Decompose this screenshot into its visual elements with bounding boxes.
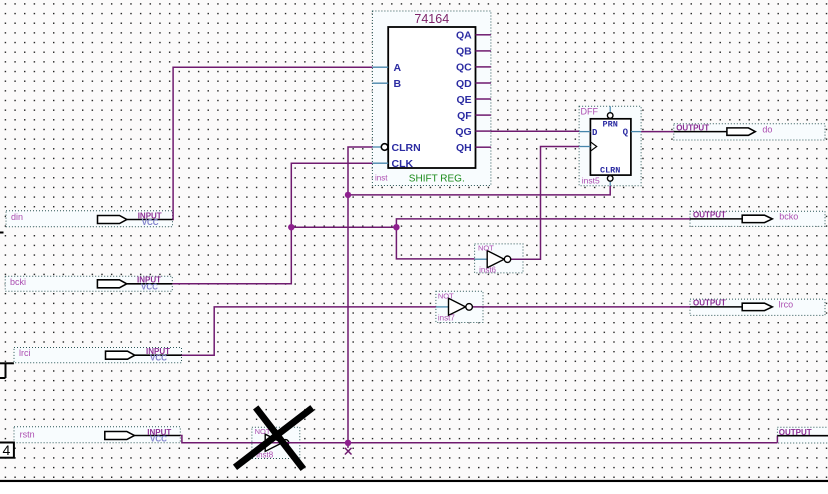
svg-text:NOT: NOT [478,244,494,253]
svg-text:OUTPUT: OUTPUT [693,211,726,220]
svg-text:QA: QA [456,30,472,42]
svg-text:OUTPUT: OUTPUT [693,299,726,308]
svg-text:QC: QC [456,62,472,74]
svg-text:QH: QH [456,142,472,154]
svg-text:QF: QF [457,110,472,122]
svg-text:QD: QD [456,78,472,90]
svg-text:lrci: lrci [19,348,31,358]
svg-text:SHIFT REG.: SHIFT REG. [409,173,465,184]
svg-text:lrco: lrco [779,300,794,310]
svg-text:do: do [762,124,772,134]
svg-text:OUTPUT: OUTPUT [779,428,812,437]
svg-text:rstn: rstn [20,430,35,440]
svg-text:A: A [394,62,402,74]
svg-text:bcko: bcko [779,212,798,222]
svg-text:B: B [394,78,402,90]
svg-text:din: din [11,212,23,222]
svg-text:QE: QE [457,94,472,106]
svg-text:PRN: PRN [603,119,618,129]
svg-text:inst6: inst6 [479,265,496,274]
svg-text:QB: QB [456,46,472,58]
svg-text:VCC: VCC [150,435,167,444]
svg-text:NOT: NOT [438,292,454,301]
svg-text:4: 4 [3,442,11,458]
svg-text:inst5: inst5 [582,175,600,185]
svg-text:74164: 74164 [414,12,449,26]
svg-text:QG: QG [455,126,471,138]
svg-text:VCC: VCC [150,354,167,363]
svg-text:D: D [592,128,598,138]
svg-text:DFF: DFF [581,107,599,117]
svg-text:Q: Q [623,128,629,138]
svg-text:CLRN: CLRN [392,142,421,154]
svg-text:bcki: bcki [10,277,26,287]
svg-text:CLRN: CLRN [600,165,620,175]
svg-text:VCC: VCC [141,282,158,291]
svg-text:inst7: inst7 [438,314,455,323]
svg-text:inst: inst [375,174,388,183]
svg-text:OUTPUT: OUTPUT [676,123,709,132]
svg-text:VCC: VCC [142,218,159,227]
svg-text:CLK: CLK [392,158,414,170]
